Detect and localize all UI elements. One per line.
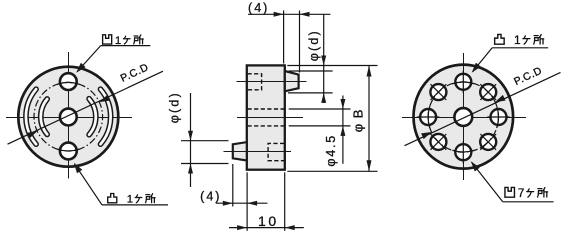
extension line hole lower [289, 125, 351, 127]
svg-text:1: 1 [127, 194, 133, 206]
dimension (4) bottom-left [200, 164, 267, 207]
ring hole at 135 deg [430, 84, 446, 100]
P.C.D leader line [8, 71, 164, 144]
horizontal centerline [6, 117, 132, 119]
center hole [60, 109, 77, 126]
right view: flange back face [402, 53, 561, 180]
P.C.D arc through back bottom hole [452, 150, 474, 152]
svg-text:7: 7 [518, 186, 525, 200]
P.C.D arrowhead upper-right [99, 95, 109, 102]
svg-text:φ(d): φ(d) [168, 91, 182, 123]
center hole (back) [454, 108, 472, 126]
extension line boss top [289, 70, 333, 72]
dimension phi4.5 [324, 96, 345, 167]
svg-text:1: 1 [514, 33, 521, 47]
arc slot outer-right [101, 89, 111, 144]
hidden center hole line lower [248, 125, 285, 127]
extension line hole upper [289, 108, 351, 110]
P.C.D dashed circle [34, 82, 103, 151]
top hole (recess side) [60, 73, 77, 90]
P.C.D arc through bottom hole [57, 149, 79, 151]
dimension (4) top [248, 1, 330, 72]
hidden recess top (dashed) [248, 74, 262, 90]
extension line A (top) [287, 65, 377, 67]
P.C.D arc through back left hole [428, 106, 430, 128]
arc slot inner-left [41, 99, 47, 134]
hidden recess bottom (dashed) [268, 143, 284, 160]
boss centerline top [237, 81, 307, 83]
flange outer circle [18, 67, 118, 167]
svg-text:(4): (4) [248, 1, 269, 15]
vertical centerline (back) [463, 53, 465, 180]
label: concave 7 places (bottom of right view) [471, 161, 554, 202]
horizontal centerline (back) [402, 117, 526, 119]
label: convex 1 place (top of right view) [472, 33, 549, 73]
part centerline middle [237, 117, 303, 119]
top shaft boss (right) [285, 71, 299, 91]
P.C.D arc through top hole [57, 82, 79, 84]
dimension phi(d) middle [307, 14, 326, 103]
flange body rectangle [247, 65, 285, 169]
svg-text:(4): (4) [200, 189, 221, 203]
bottom boss (left) [233, 142, 247, 160]
middle view: side section [224, 65, 307, 169]
arc slot inner-right [89, 99, 96, 135]
dimension 10 bottom [229, 172, 304, 231]
P.C.D arc through back top hole [452, 82, 474, 84]
P.C.D arrowhead lower-left (back) [421, 132, 431, 139]
ring hole at 45 deg [480, 84, 496, 100]
ring hole at 180 deg [417, 109, 439, 125]
svg-text:φ B: φ B [350, 109, 365, 133]
ring hole at 225 deg [430, 134, 446, 150]
svg-text:φ4.5: φ4.5 [324, 134, 338, 167]
label: convex 1 place (bottom of left view) [74, 163, 168, 206]
arc slot outer-left [26, 89, 36, 144]
vertical centerline [68, 52, 70, 179]
boss centerline bottom [224, 151, 292, 153]
P.C.D leader line (back) [405, 72, 561, 145]
label: concave 1 place (top of left view) [76, 35, 150, 73]
dimension phiB [350, 66, 371, 172]
ring hole at 270 deg [455, 141, 471, 163]
ring hole at 0 deg [487, 109, 509, 125]
extension line boss bottom [288, 92, 333, 94]
flange outer circle (back) [414, 65, 514, 169]
svg-text:φ(d): φ(d) [307, 29, 321, 61]
bottom hole (boss side) [60, 143, 77, 160]
extension line bottom (B) [287, 170, 377, 172]
svg-text:10: 10 [258, 213, 279, 229]
P.C.D dashed circle (back) [428, 82, 498, 152]
ring hole at 90 deg [455, 71, 471, 93]
ring hole at 315 deg [480, 134, 496, 150]
left view: flange front face [6, 52, 163, 179]
P.C.D arrowhead lower-left [27, 131, 37, 138]
P.C.D arrowhead upper-right (back) [495, 95, 505, 102]
hidden center hole line upper [248, 108, 285, 110]
dimension phi(d) left view boss [168, 91, 229, 187]
P.C.D arc through back right hole [497, 106, 499, 128]
